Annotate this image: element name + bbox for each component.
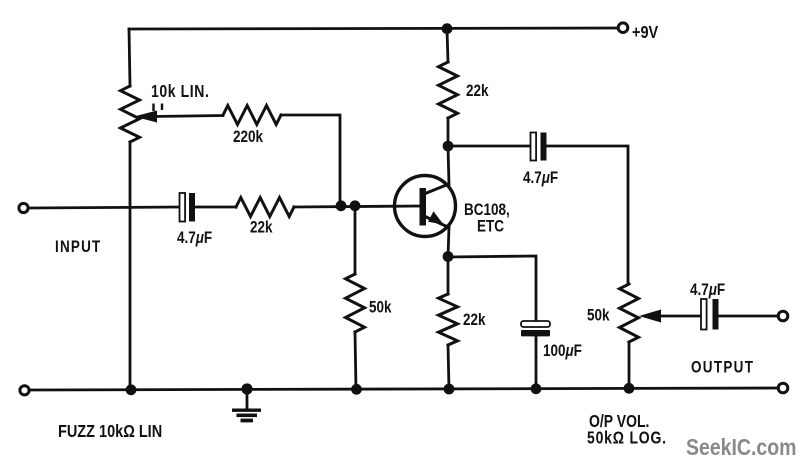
svg-text:22k: 22k — [466, 82, 489, 101]
node dot bottom rail at fuzz pot — [126, 384, 137, 395]
ground symbol — [232, 409, 261, 423]
resistor R3 22k series body — [236, 198, 294, 217]
wire output coupling right segment to corner and down — [547, 146, 628, 284]
wire fuzz pot wiper horizontal — [152, 116, 223, 117]
svg-text:4.7μF: 4.7μF — [177, 229, 212, 248]
wire ground stub — [246, 389, 249, 409]
svg-text:SeekIC.com: SeekIC.com — [686, 435, 796, 461]
node dot bottom rail at output pot — [624, 383, 635, 394]
potentiometer R1 fuzz 10k body — [121, 86, 140, 142]
capacitor C3 100uF bypass plates — [521, 321, 550, 336]
transistor Q1 emitter arrowhead — [428, 211, 444, 224]
svg-text:INPUT: INPUT — [55, 238, 101, 257]
svg-text:220k: 220k — [233, 128, 264, 147]
resistor R6 22k emitter body — [439, 294, 458, 345]
wire 50k bias vertical lower — [355, 332, 356, 390]
node dot emitter junction — [443, 251, 454, 262]
wire top rail +9V — [129, 28, 623, 29]
node dot collector junction — [443, 141, 454, 152]
potentiometer R7 50k output body — [620, 284, 639, 342]
resistor R5 22k collector body — [439, 62, 458, 118]
node dot bottom rail at 50k — [351, 384, 362, 395]
svg-text:50kΩ LOG.: 50kΩ LOG. — [587, 429, 667, 448]
svg-text:+9V: +9V — [632, 23, 658, 43]
transistor Q1 emitter diagonal — [424, 216, 450, 228]
node dot top rail — [442, 23, 453, 34]
capacitor C1 4.7uF input plates — [180, 193, 196, 222]
svg-text:OUTPUT: OUTPUT — [691, 358, 754, 377]
svg-text:FUZZ 10kΩ LIN: FUZZ 10kΩ LIN — [58, 422, 162, 442]
svg-text:50k: 50k — [587, 306, 610, 325]
wire bottom rail — [29, 388, 778, 390]
terminal bottom left — [20, 386, 29, 395]
wire output coupling left segment — [448, 145, 531, 148]
capacitor C4 4.7uF output plates — [701, 299, 719, 330]
resistor R4 50k body — [346, 274, 365, 332]
wire input line left segment — [28, 207, 180, 208]
wire collector vertical from rail — [447, 29, 448, 62]
svg-text:ETC: ETC — [477, 217, 504, 236]
transistor Q1 BC108 — [395, 176, 456, 237]
svg-text:4.7μF: 4.7μF — [690, 281, 725, 300]
transistor Q1 emitter vertical to node — [448, 227, 449, 257]
svg-text:50k: 50k — [369, 298, 392, 317]
svg-text:100μF: 100μF — [543, 342, 582, 361]
wire 22k to transistor base — [294, 206, 420, 207]
terminal output — [778, 311, 788, 321]
resistor R2 220k body — [223, 106, 281, 125]
wire left vertical from top rail to fuzz pot — [129, 29, 130, 86]
node dot feedback junction — [336, 200, 347, 211]
terminal bottom right — [778, 383, 788, 393]
svg-text:22k: 22k — [463, 311, 486, 330]
wire emitter node down to 22k — [447, 257, 450, 294]
capacitor C2 4.7uF interstage plates — [531, 133, 547, 161]
wire 220k to feedback corner — [281, 115, 340, 203]
node dot bottom rail at 100uF — [531, 383, 542, 394]
svg-text:4.7μF: 4.7μF — [523, 169, 558, 188]
wire output pot wiper to cap — [655, 315, 701, 318]
terminal +9V — [618, 23, 628, 33]
wire input cap to 22k — [195, 206, 236, 209]
transistor Q1 base bar — [420, 188, 427, 226]
svg-text:22k: 22k — [250, 218, 273, 237]
wire 22k collector to node — [447, 118, 450, 146]
wire left vertical from fuzz pot to bottom rail — [129, 142, 132, 390]
wire 50k bias vertical upper — [354, 206, 357, 274]
wire bypass cap to bottom rail — [535, 336, 538, 389]
potentiometer wiper arrow fuzz — [134, 111, 157, 123]
annotation ticks above fuzz arrow — [154, 104, 163, 112]
wire emitter node to bypass cap corner — [448, 256, 536, 321]
wire output cap to terminal — [719, 315, 778, 318]
wire output pot bottom to rail — [628, 342, 631, 388]
transistor Q1 collector diagonal — [424, 184, 450, 195]
node dot bottom rail at 22k emitter — [444, 384, 455, 395]
svg-text:10k LIN.: 10k LIN. — [151, 83, 209, 102]
terminal input — [19, 203, 28, 212]
potentiometer wiper arrow output — [639, 310, 661, 323]
wire emitter 22k to bottom rail — [448, 345, 449, 389]
node dot base junction — [350, 200, 361, 211]
wire node to transistor collector — [448, 146, 449, 185]
node dot bottom rail at ground — [241, 383, 252, 394]
